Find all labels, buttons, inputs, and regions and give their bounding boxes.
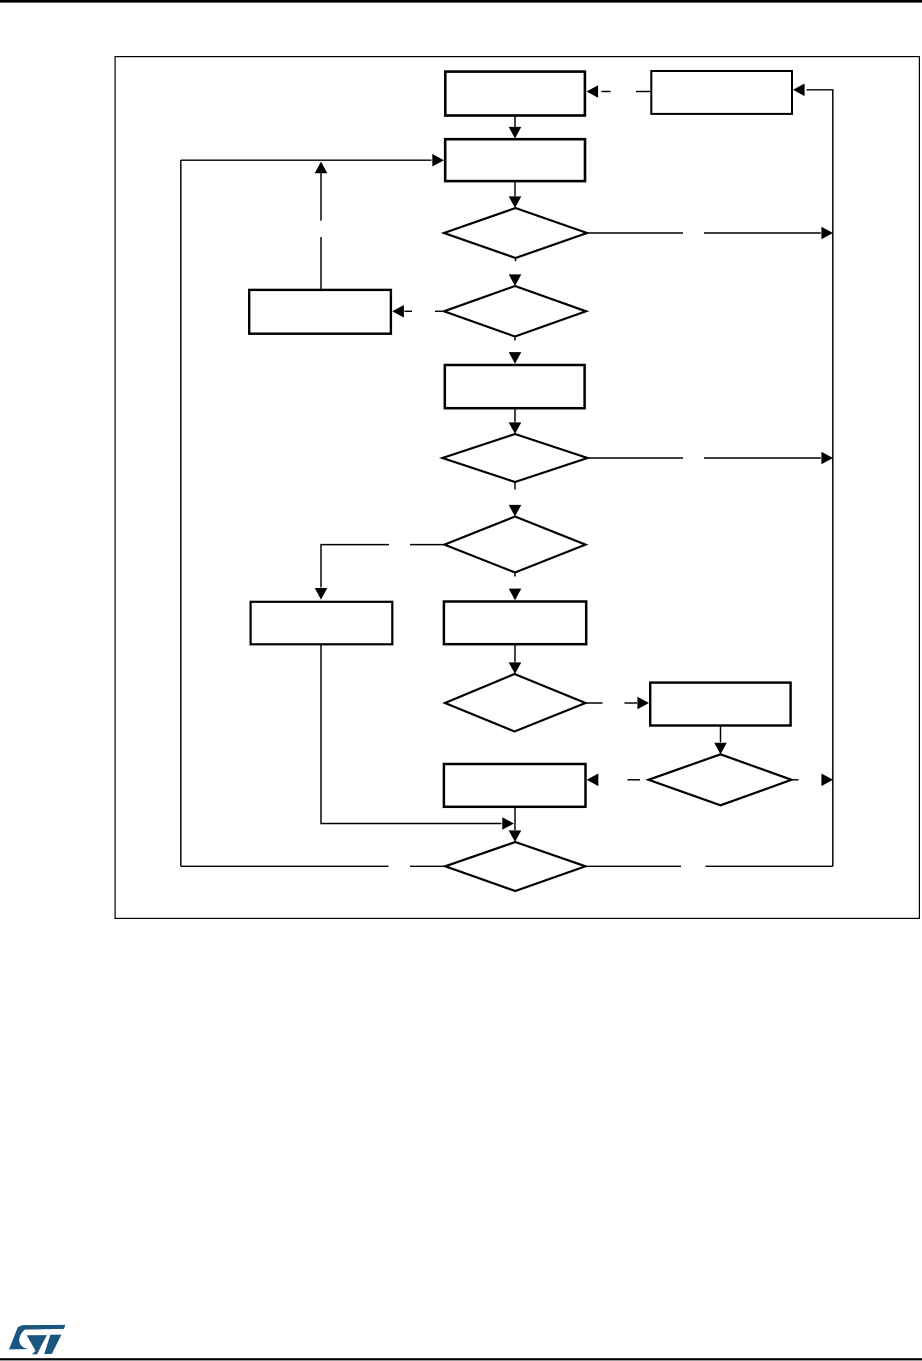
wire box E to diamond D6 [514,807,516,830]
ST logo [9,1325,65,1355]
wire top loop horizontal into box B [181,159,432,161]
arrowhead into box L2 top [315,588,328,600]
footer rule [0,1358,922,1360]
wire left loop vertical [180,160,182,866]
wire stub below diamond D2 [514,337,516,341]
arrowhead into box R1 right [793,84,805,97]
arrowhead into box C top [509,352,522,364]
arrowhead into diamond DS top [714,743,727,755]
diamond DS (small right) [649,754,792,805]
wire diamond D2 left segment [405,310,413,312]
wire diamond D6 right segment b to right vline [706,865,833,867]
diamond D2 [444,286,586,337]
wire box R2 to diamond DS [720,726,722,743]
box B (second center process) [445,139,585,181]
box C (third center process) [445,365,585,408]
arrowhead into diamond D6 top [509,830,522,842]
wire box R1 to box A segment [602,91,611,93]
arrowhead into box D top [509,589,522,601]
arrowhead into box B left [432,154,444,167]
diamond D5 [445,674,586,732]
arrowhead into diamond D1 top [509,196,522,208]
wire diamond DS left segment [628,779,641,781]
wire box D to diamond D5 [514,644,516,662]
wire stub below diamond D4 [514,573,516,577]
wire diamond D5 right segment [625,702,638,704]
wire diamond D2 left stub [435,310,444,312]
box L1 (left process upper) [249,290,391,334]
wire stub below diamond D3 [514,482,516,490]
arrowhead into diamond D5 top [509,662,522,674]
wire box R1 to box A stub [636,91,650,93]
wire diamond D3 right segment a [588,457,684,459]
wire diamond D3 right segment b [704,457,821,459]
arrowhead joining center line at y823 [502,817,514,830]
wire diamond D1 right segment a [587,232,683,234]
box A (top center process) [445,72,585,116]
box R1 (top right process) [651,71,792,114]
wire diamond D6 left stub [410,865,445,867]
wire diamond D6 left long segment to left vline [181,865,389,867]
diamond D6 (bottom) [445,842,585,891]
wire box L2 down and across [321,644,502,823]
arrowhead up into top loop line [315,162,328,174]
wire box C to diamond D3 [514,408,516,422]
wire stub below diamond D1 [515,258,517,261]
wire diamond D6 right segment a [586,865,682,867]
diamond D1 [444,208,587,258]
wire box B to diamond D1 [514,181,516,196]
box E (fifth center process) [444,764,586,807]
top page rule [0,0,922,3]
wire diamond D4 left segment b with corner down [321,545,389,588]
figure frame [115,57,919,919]
wire diamond D5 right stub [586,702,603,704]
arrowhead into right vline at y233 [821,227,833,240]
wire up-arrow from box L1 segment a [320,173,322,221]
diamond D4 [445,517,586,573]
arrowhead into right vline at y458 [821,452,833,465]
arrowhead into diamond D3 top [509,422,522,434]
diamond D3 [443,434,588,482]
arrowhead into box R2 left [637,697,649,710]
wire diamond D4 left segment a [410,544,445,546]
arrowhead into box E right [587,774,599,787]
box R2 (right mid process) [650,683,790,726]
wire box A to box B [514,116,516,128]
arrowhead into box L1 right [392,305,404,318]
box L2 (left process lower) [251,602,393,645]
arrowhead into box A right [587,85,599,98]
arrowhead into diamond D2 top [509,274,522,286]
arrowhead into right vline at y780 [821,774,833,787]
box D (fourth center process) [444,602,586,645]
wire diamond D1 right segment b [704,232,821,234]
wire diamond DS right stub [792,779,799,781]
arrowhead into diamond D4 top [509,505,522,517]
wire up-arrow from box L1 segment b [320,237,322,290]
arrowhead into box B top [509,127,522,139]
wire right loop vertical [807,90,833,867]
